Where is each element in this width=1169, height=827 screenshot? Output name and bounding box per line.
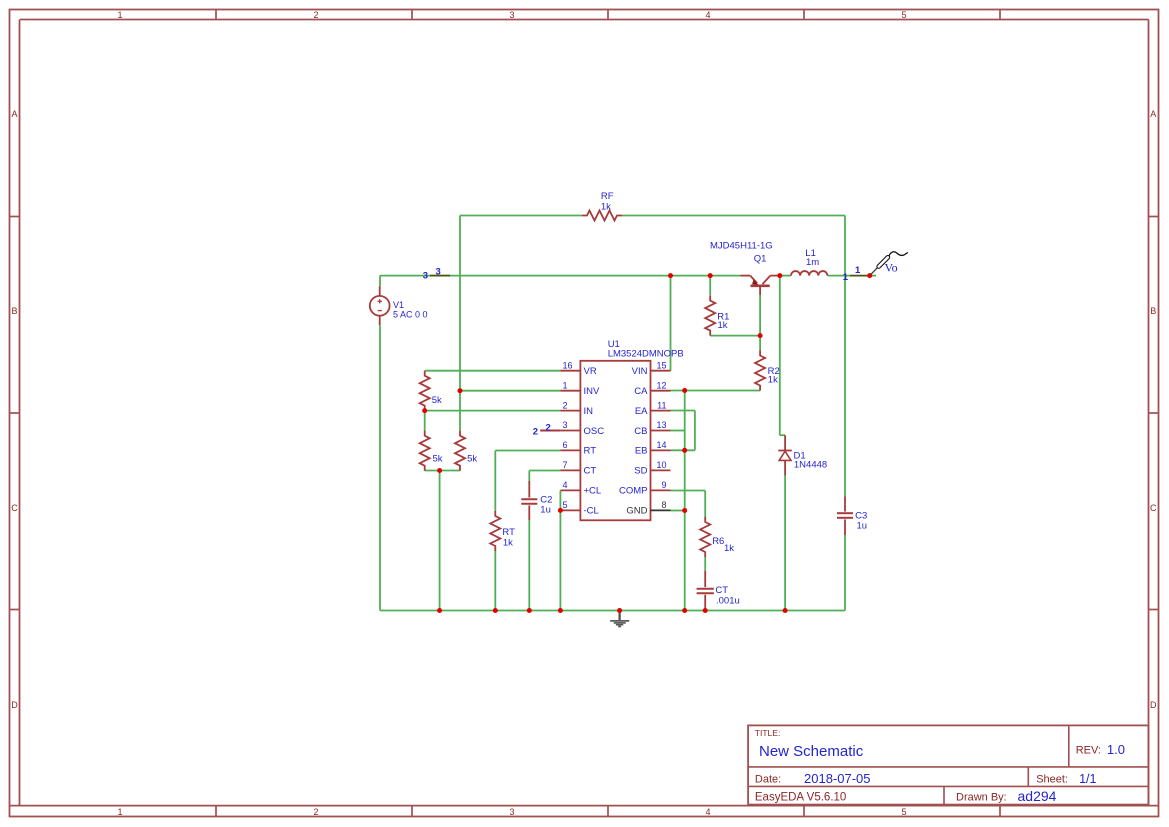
svg-text:LM3524DMNOPB: LM3524DMNOPB: [608, 349, 684, 360]
svg-text:5: 5: [901, 10, 906, 20]
svg-text:1N4448: 1N4448: [794, 459, 827, 470]
svg-text:R6: R6: [712, 536, 724, 547]
svg-text:5k: 5k: [433, 453, 443, 464]
svg-text:4: 4: [705, 10, 710, 20]
svg-text:13: 13: [656, 420, 666, 430]
svg-text:Vo: Vo: [885, 261, 898, 275]
svg-text:2018-07-05: 2018-07-05: [804, 771, 871, 786]
svg-text:5: 5: [901, 807, 906, 817]
svg-text:1k: 1k: [724, 543, 734, 554]
svg-text:3: 3: [436, 266, 441, 277]
svg-text:1k: 1k: [768, 374, 778, 385]
svg-text:TITLE:: TITLE:: [755, 728, 781, 738]
svg-text:9: 9: [661, 480, 666, 490]
svg-text:Date:: Date:: [755, 774, 781, 786]
svg-text:1k: 1k: [718, 320, 728, 331]
svg-text:.001u: .001u: [716, 595, 740, 606]
svg-text:1: 1: [563, 380, 568, 390]
svg-text:3: 3: [509, 807, 514, 817]
svg-text:INV: INV: [584, 386, 601, 397]
svg-text:-CL: -CL: [584, 506, 599, 517]
svg-text:5k: 5k: [432, 395, 442, 406]
svg-text:3: 3: [563, 420, 568, 430]
svg-text:REV:: REV:: [1076, 744, 1101, 756]
svg-text:1.0: 1.0: [1107, 742, 1125, 757]
svg-text:Drawn By:: Drawn By:: [956, 791, 1007, 803]
svg-text:1: 1: [843, 272, 849, 283]
svg-text:1u: 1u: [540, 504, 551, 515]
svg-text:4: 4: [705, 807, 710, 817]
svg-text:1k: 1k: [601, 201, 611, 212]
svg-text:1/1: 1/1: [1079, 772, 1096, 786]
svg-text:11: 11: [657, 400, 666, 410]
svg-text:6: 6: [563, 440, 568, 450]
svg-text:A: A: [11, 109, 17, 119]
svg-text:Sheet:: Sheet:: [1036, 774, 1068, 786]
svg-text:5 AC 0 0: 5 AC 0 0: [393, 309, 428, 319]
svg-text:VR: VR: [584, 366, 597, 377]
svg-text:5: 5: [563, 500, 568, 510]
svg-text:2: 2: [313, 807, 318, 817]
svg-text:14: 14: [656, 440, 666, 450]
svg-text:EA: EA: [635, 406, 648, 417]
svg-text:VIN: VIN: [632, 366, 648, 377]
svg-text:2: 2: [313, 10, 318, 20]
svg-text:10: 10: [656, 460, 666, 470]
svg-text:OSC: OSC: [584, 426, 605, 437]
svg-text:C: C: [1150, 503, 1157, 513]
svg-text:5k: 5k: [467, 453, 477, 464]
svg-text:COMP: COMP: [619, 486, 648, 497]
svg-text:3: 3: [423, 270, 428, 281]
svg-text:RT: RT: [584, 446, 597, 457]
svg-text:+CL: +CL: [584, 486, 602, 497]
svg-text:16: 16: [563, 360, 573, 370]
svg-text:7: 7: [563, 460, 568, 470]
svg-text:IN: IN: [584, 406, 594, 417]
svg-text:B: B: [1150, 306, 1156, 316]
svg-text:15: 15: [656, 360, 666, 370]
svg-text:MJD45H11-1G: MJD45H11-1G: [710, 240, 773, 251]
svg-text:EB: EB: [635, 446, 648, 457]
svg-text:Q1: Q1: [754, 254, 767, 265]
svg-text:RF: RF: [601, 191, 614, 202]
svg-text:1u: 1u: [857, 520, 868, 531]
svg-text:1k: 1k: [503, 537, 513, 548]
svg-text:1: 1: [117, 10, 122, 20]
svg-text:2: 2: [533, 426, 538, 437]
svg-text:GND: GND: [626, 506, 647, 517]
svg-text:CA: CA: [634, 386, 648, 397]
svg-text:2: 2: [563, 400, 568, 410]
svg-text:SD: SD: [634, 466, 647, 477]
svg-text:1m: 1m: [806, 257, 819, 268]
svg-text:ad294: ad294: [1018, 788, 1057, 804]
svg-text:8: 8: [661, 500, 666, 510]
svg-text:2: 2: [546, 422, 551, 433]
svg-text:D: D: [1150, 700, 1157, 710]
svg-text:CT: CT: [584, 466, 597, 477]
svg-text:3: 3: [509, 10, 514, 20]
svg-text:New Schematic: New Schematic: [759, 743, 864, 760]
svg-text:B: B: [11, 306, 17, 316]
svg-text:D: D: [11, 700, 18, 710]
svg-text:1: 1: [855, 265, 861, 276]
svg-text:A: A: [1150, 109, 1156, 119]
svg-text:C: C: [11, 503, 18, 513]
svg-text:CB: CB: [634, 426, 647, 437]
svg-text:12: 12: [656, 380, 666, 390]
svg-text:4: 4: [563, 480, 568, 490]
svg-text:EasyEDA V5.6.10: EasyEDA V5.6.10: [755, 791, 846, 803]
svg-text:1: 1: [117, 807, 122, 817]
